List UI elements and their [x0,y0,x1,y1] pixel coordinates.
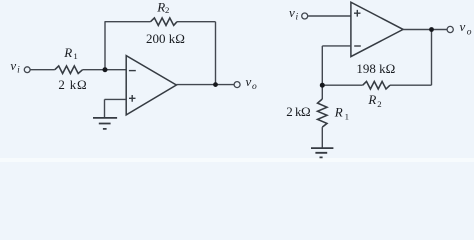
svg-text:v: v [289,5,295,20]
node vo terminal (right circuit) [447,26,453,32]
op-amp U2 minus sign [354,45,361,47]
op-amp U1 triangle [126,56,176,115]
ground (left) stem [104,99,106,117]
wire feedback vertical up to output [431,30,433,86]
junction dot at R1/R2 node (right) [320,83,325,88]
node vi (left input terminal) [24,67,30,73]
svg-text:R: R [63,45,72,60]
op-amp U1 plus sign [129,95,136,102]
op-amp U2 triangle [351,2,403,56]
svg-text:198 kΩ: 198 kΩ [356,61,395,76]
wire R1 to ground [321,127,323,148]
wire feedback vertical right down to output [215,22,217,85]
svg-text:2 kΩ: 2 kΩ [58,77,87,92]
wire noninverting input to ground stem [105,98,127,100]
wire top right segment R2 to right vertical [177,21,216,23]
svg-text:i: i [296,12,299,22]
svg-text:2: 2 [377,99,381,109]
svg-text:2: 2 [165,5,169,15]
resistor R2 (left, 200 kohm) zigzag [151,18,178,26]
svg-text:v: v [460,19,466,34]
node vi (right input terminal) [302,13,308,19]
op-amp U2 plus sign [354,10,361,17]
ground (right) bars [311,148,333,157]
wire op-amp output to vo [176,84,234,86]
svg-text:v: v [246,74,252,89]
wire R1 to op-amp inverting input [83,69,127,71]
svg-text:v: v [10,58,16,73]
wire R2 to right vertical [390,84,432,86]
junction dot at inverting input (left) [103,67,108,72]
wire op-amp output to vo [403,29,447,31]
svg-text:i: i [17,66,20,76]
wire top left segment to R2 [105,21,151,23]
op-amp U1 minus sign [129,70,136,72]
wire node down to R1 [321,85,323,99]
resistor R1 (left, 2 kohm) zigzag [55,66,83,74]
svg-text:o: o [467,28,472,38]
ground (left) bars [93,118,117,129]
svg-text:R: R [367,92,376,107]
svg-text:2 kΩ: 2 kΩ [286,104,310,119]
wire vi to R1 [31,69,55,71]
svg-text:1: 1 [345,112,349,122]
wire inverting input left [322,45,351,47]
bottom light strip [0,158,474,162]
svg-text:R: R [334,104,343,119]
junction dot at output (left) [213,82,218,87]
svg-text:200 kΩ: 200 kΩ [146,31,185,46]
wire inverting input down to node [321,46,323,85]
resistor R2 (right, 198 kohm) zigzag [363,81,390,89]
node vo terminal (left circuit) [234,82,240,88]
resistor R1 (right, 2 kohm) vertical zigzag [318,99,328,127]
svg-text:R: R [156,0,165,14]
svg-text:1: 1 [73,51,77,61]
junction dot at output (right) [429,27,434,32]
svg-text:o: o [252,82,257,92]
wire vi to op-amp noninverting input [308,15,351,17]
wire feedback vertical left [104,22,106,70]
wire node to R2 [322,84,362,86]
